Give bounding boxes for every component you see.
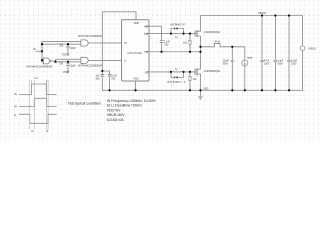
node LO network: [170, 71, 172, 73]
capacitor 1uF VDD: [101, 75, 105, 77]
svg-text:ILOAD=0A: ILOAD=0A: [107, 118, 125, 122]
svg-text:3.3uF: 3.3uF: [277, 60, 284, 62]
svg-text:GND: GND: [203, 87, 209, 90]
resistor R 1ohm low side zigzag: [173, 71, 182, 72]
op-amp gate U2 AND SN74AHC1G08 top: [81, 40, 88, 46]
svg-text:SN74AHC1G08DBVR: SN74AHC1G08DBVR: [78, 64, 102, 67]
svg-text:Iload: Iload: [247, 57, 253, 59]
resistor R 1ohm high side zigzag: [173, 33, 182, 34]
capacitor 22pF gate2: [66, 64, 70, 65]
wire gate2 lower input with RC: [56, 61, 82, 63]
node VBUS rail: [261, 14, 263, 16]
VSS arrow cap1: [67, 53, 69, 55]
svg-text:100V: 100V: [291, 63, 297, 65]
svg-text:CSD19533Q5A: CSD19533Q5A: [204, 70, 221, 73]
IC pin arrows right side: [147, 25, 149, 72]
svg-text:SN74AHC1G08DBVR: SN74AHC1G08DBVR: [78, 35, 102, 38]
svg-text:1uF: 1uF: [96, 74, 101, 77]
svg-text:CSD19533Q5A: CSD19533Q5A: [204, 31, 221, 34]
svg-text:25V: 25V: [164, 43, 169, 46]
wire switch node to load with inductor bump: [201, 43, 245, 60]
svg-text:VSS: VSS: [63, 71, 68, 74]
node HO network: [170, 32, 172, 34]
wire deadtime reference ticks: [30, 80, 48, 130]
svg-text:VBUS: VBUS: [308, 47, 316, 51]
wire waveform IN trace: [19, 84, 57, 95]
svg-text:25V: 25V: [111, 78, 116, 81]
wire switch node vertical: [197, 47, 201, 69]
wire HO to gate network: [149, 33, 195, 35]
wire IN stub: [36, 50, 43, 52]
wire bus cap column 1: [261, 16, 263, 91]
svg-text:LO: LO: [145, 71, 148, 74]
svg-text:VBUS=50V: VBUS=50V: [107, 113, 126, 117]
test conditions text: [68, 99, 157, 122]
svg-text:100V: 100V: [277, 63, 283, 65]
svg-text:0.1uF: 0.1uF: [164, 41, 171, 44]
svg-text:IN Frequency=100kHz, D=50%: IN Frequency=100kHz, D=50%: [107, 99, 157, 103]
wire low FET source to GND: [197, 74, 201, 90]
wire HB to bootstrap cap: [149, 26, 162, 52]
junction dots: [41, 14, 290, 91]
node IN/gate junctions: [41, 43, 43, 45]
capacitor 0.1uF VDD: [108, 75, 112, 77]
transistor Q1 CSD19533Q5A high side: [194, 31, 196, 37]
diode BAT54WS high side: [171, 28, 184, 33]
wire input vertical: [42, 41, 81, 62]
capacitor 220uF load: [231, 60, 235, 61]
svg-text:25V: 25V: [96, 78, 101, 81]
resistor R 10k high-side pulldown: [189, 40, 191, 44]
wire VDD rail from bypass column to IC VDD pin: [102, 12, 136, 75]
svg-text:LI: LI: [124, 59, 126, 62]
grid major dotted row: [0, 15, 320, 17]
svg-text:Test typical condition:: Test typical condition:: [68, 102, 102, 106]
svg-text:HI: HI: [124, 42, 127, 45]
capacitor 47uF bus: [260, 60, 264, 61]
capacitor 220uF bus: [287, 60, 291, 61]
svg-text:VBUS: VBUS: [258, 11, 266, 15]
svg-text:100V: 100V: [223, 63, 229, 65]
svg-text:HI,LI Deadtime=100ns: HI,LI Deadtime=100ns: [107, 104, 143, 108]
VSS arrow cap2: [67, 71, 69, 73]
wire VSS pin to GND rail: [135, 81, 137, 90]
voltage source VBUS: [300, 46, 305, 51]
node HS bootstrap: [160, 51, 162, 53]
svg-text:22pF: 22pF: [70, 47, 76, 50]
capacitor 22pF gate1: [66, 46, 70, 48]
wire waveform LI trace: [19, 114, 57, 123]
IC U1 UCC27712A gate driver: [122, 20, 150, 81]
node VDD bypass: [101, 70, 103, 72]
op-amp gate U3 AND SN74AHC1G08 bottom: [81, 57, 88, 63]
svg-text:47uF: 47uF: [264, 60, 270, 62]
wire Iload source bottom: [244, 66, 246, 90]
resistor R 10k gate1 RC zigzag: [58, 44, 64, 45]
text labels (small component labels): [14, 11, 316, 133]
ground symbol arrow: [199, 96, 203, 99]
node load branch: [231, 46, 233, 48]
wire gate2 output to LI: [88, 59, 121, 61]
wire gate1 lower input with RC: [42, 43, 81, 45]
svg-text:0.1uF: 0.1uF: [111, 74, 118, 77]
node switch: [199, 46, 201, 48]
svg-text:HB: HB: [144, 25, 148, 28]
current source Iload: [242, 60, 248, 66]
wire NAND inputs stub: [42, 60, 44, 63]
svg-text:VDD=8V: VDD=8V: [107, 108, 122, 112]
wire gate2 upper input: [56, 58, 82, 60]
waveform diagram: [19, 84, 57, 123]
svg-text:47uH: 47uH: [215, 42, 221, 44]
svg-text:HO: HO: [144, 33, 148, 36]
wire waveform HI trace: [19, 98, 57, 106]
wire bus cap column 3: [288, 16, 290, 91]
svg-text:HS: HS: [144, 51, 148, 54]
wire high FET source to switch node: [197, 36, 201, 47]
resistor R 10k low-side pulldown: [189, 76, 191, 80]
svg-text:220uF: 220uF: [291, 60, 298, 62]
wire GND rail: [102, 51, 302, 91]
transistor Q2 CSD19533Q5A low side: [194, 69, 196, 75]
svg-text:220uF: 220uF: [223, 60, 230, 62]
capacitor 0.1uF bootstrap: [160, 41, 164, 43]
svg-text:BAT54WS-7-F: BAT54WS-7-F: [168, 81, 186, 84]
ground symbol stem: [200, 90, 202, 97]
wire gate1 output to HI: [88, 42, 121, 44]
wire 22pF cap2 stubs: [67, 62, 69, 71]
svg-text:100V: 100V: [264, 63, 270, 65]
wire NAND output: [51, 59, 55, 62]
wire load cap column: [231, 47, 233, 91]
capacitor 3.3uF bus: [274, 60, 278, 61]
resistor R 10k gate2 RC zigzag: [58, 61, 64, 62]
wire high FET drain to VBUS: [197, 16, 201, 32]
svg-text:22pF: 22pF: [70, 64, 76, 67]
wire VBUS rail: [201, 16, 303, 46]
diode BAT54WS low side: [171, 72, 184, 78]
wire bus cap column 2: [274, 16, 276, 91]
wire 22pF cap1 stubs: [67, 44, 69, 53]
svg-text:VSS: VSS: [62, 54, 67, 57]
op-amp gate U4 NAND SN74AHC1G04: [43, 58, 49, 64]
wire VDD 0.1uF branch: [102, 71, 109, 90]
wire HS: [149, 51, 201, 53]
wire LO to gate network: [149, 71, 195, 73]
